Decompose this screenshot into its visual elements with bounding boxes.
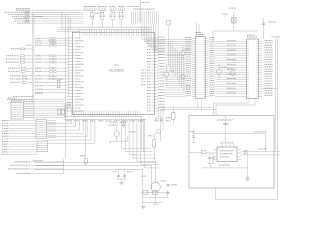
svg-text:MLC0800: MLC0800	[109, 69, 124, 73]
svg-text:CPRS ONLY: CPRS ONLY	[217, 118, 235, 122]
svg-text:IC1: IC1	[114, 63, 119, 67]
